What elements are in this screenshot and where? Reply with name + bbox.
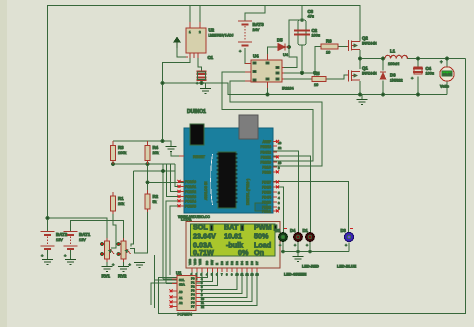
svg-text:D6: D6 <box>390 73 396 78</box>
svg-text:L1: L1 <box>390 49 396 54</box>
svg-text:10: 10 <box>278 161 282 165</box>
svg-text:PC3/A3: PC3/A3 <box>185 195 196 199</box>
wire U1 P7 to LCD D7 <box>200 272 257 306</box>
svg-text:PC0/A0: PC0/A0 <box>185 180 196 184</box>
svg-text:AREF: AREF <box>262 140 271 144</box>
wire Q2 source to switch node <box>359 50 361 59</box>
wire LED cathode bus <box>283 242 349 252</box>
svg-text:R3: R3 <box>118 145 124 150</box>
svg-text:U4: U4 <box>283 53 288 57</box>
svg-text:14: 14 <box>256 273 260 277</box>
svg-text:PD6/6: PD6/6 <box>262 186 271 190</box>
wire ground symbol stem on ground rail <box>361 95 363 100</box>
wire divider top rail <box>113 141 171 146</box>
svg-text:PD4/4: PD4/4 <box>262 196 271 200</box>
wire BAT3 minus to U4 pin1 <box>245 48 251 64</box>
svg-text:13: 13 <box>251 273 255 277</box>
svg-text:IRFZ44N: IRFZ44N <box>362 42 377 46</box>
svg-text:PC5/A5: PC5/A5 <box>185 205 196 209</box>
io expander U1 <box>170 271 205 317</box>
wire BAT1 plus to RV2 top <box>71 221 124 239</box>
svg-text:BAT1: BAT1 <box>79 232 91 237</box>
mosfet Q2 <box>347 36 377 52</box>
svg-text:A2: A2 <box>179 301 183 305</box>
svg-text:100u: 100u <box>426 72 434 76</box>
svg-text:+0.00: +0.00 <box>443 72 452 76</box>
svg-text:0.71W: 0.71W <box>193 248 214 257</box>
resistor R5 <box>312 71 326 87</box>
wire C1 stub from U2 pin <box>198 58 202 83</box>
wire U1 P3 to LCD backlight <box>200 272 237 290</box>
wire R1 bottom to RV1 wiper <box>111 211 116 248</box>
resistor R3 <box>111 141 127 164</box>
arduino board DUINO1 <box>178 109 273 219</box>
voltmeter <box>440 60 454 89</box>
wire tap to A3 <box>167 164 185 197</box>
svg-text:VEE: VEE <box>198 259 202 265</box>
ground below BAT2 <box>42 260 53 265</box>
svg-text:LED-BLUE: LED-BLUE <box>337 265 357 269</box>
svg-text:C3: C3 <box>308 9 314 14</box>
svg-text:E: E <box>215 263 219 265</box>
svg-text:PB2/10: PB2/10 <box>261 161 272 165</box>
wire RV2 bottom to ground <box>123 262 125 266</box>
svg-text:SOL ▮: SOL ▮ <box>193 223 214 232</box>
svg-text:C2: C2 <box>312 28 318 33</box>
wire tap to A2 <box>171 164 185 192</box>
svg-text:U4: U4 <box>253 54 259 59</box>
wire U4 pin3 loop to arduino D9 <box>230 81 322 166</box>
svg-text:50%: 50% <box>254 232 269 241</box>
wire D6 stubs <box>382 59 384 95</box>
svg-text:BAT3: BAT3 <box>253 22 265 27</box>
svg-text:PD7/7: PD7/7 <box>262 181 271 185</box>
svg-text:PB3/11: PB3/11 <box>261 156 271 160</box>
svg-text:D7: D7 <box>255 261 259 265</box>
wire U4 ground pin to ground rail <box>267 82 269 95</box>
svg-text:Volts: Volts <box>440 85 449 89</box>
svg-text:D2: D2 <box>230 261 234 265</box>
battery BAT3 <box>238 21 264 54</box>
svg-text:R5: R5 <box>314 71 320 76</box>
svg-text:Q2: Q2 <box>362 36 368 41</box>
svg-text:LM2576HVT-ADJ: LM2576HVT-ADJ <box>209 34 234 38</box>
wire arduino A4 to U1 SDA <box>166 201 184 284</box>
svg-text:A0: A0 <box>179 290 183 294</box>
wire U2 input drops from top rail <box>190 6 200 23</box>
svg-text:5k: 5k <box>153 200 157 204</box>
svg-text:11: 11 <box>241 273 244 277</box>
wire divider tap line one <box>113 161 175 172</box>
wire R6 to Q2 gate <box>338 46 347 48</box>
svg-text:+: + <box>294 244 296 248</box>
svg-text:PC2/A2: PC2/A2 <box>185 190 196 194</box>
svg-text:DIGITAL (PWM~): DIGITAL (PWM~) <box>246 179 250 205</box>
svg-text:U2: U2 <box>209 28 215 33</box>
svg-text:RS: RS <box>205 261 209 265</box>
svg-text:PB0/8: PB0/8 <box>262 171 271 175</box>
wire voltmeter stubs <box>446 59 448 95</box>
svg-text:C1: C1 <box>208 55 214 60</box>
wire LCD VEE bundle <box>151 272 202 305</box>
wire Q1 source to ground rail <box>359 81 361 95</box>
ground below BAT1 <box>65 260 76 265</box>
wire D5 cathode to C3 top and U4 VB pin <box>282 6 302 68</box>
svg-text:SDA: SDA <box>179 283 185 287</box>
wire divider tap line two <box>134 171 185 187</box>
driver U4 <box>245 54 294 91</box>
svg-text:D0: D0 <box>220 261 224 265</box>
wire LCD VDD bundle <box>155 255 198 308</box>
svg-text:RV1: RV1 <box>102 274 111 279</box>
wire U1 P6 to LCD D6 <box>200 272 252 302</box>
wire U1 P1 to LCD RW <box>200 272 213 282</box>
LED D2 green <box>275 228 287 248</box>
svg-text:C4: C4 <box>426 66 432 71</box>
wire C3 bottom and U4 IN pin to R6 <box>282 45 321 73</box>
arduino left pins <box>178 156 197 209</box>
wire U1 P2 to LCD E <box>200 272 218 286</box>
svg-text:RW: RW <box>210 260 214 265</box>
svg-text:IR2104: IR2104 <box>282 87 294 91</box>
inductor L1 <box>385 49 407 67</box>
svg-text:D1: D1 <box>303 228 309 233</box>
wire arduino reset to ground <box>171 151 184 156</box>
ground below LED bus <box>293 257 304 262</box>
ground below C1 <box>200 89 211 94</box>
svg-text:PD1/1: PD1/1 <box>262 210 271 214</box>
wire BAT3 plus jog to top rail <box>245 6 265 22</box>
wire U4 LO pin to R5 <box>282 78 312 80</box>
svg-text:100k: 100k <box>118 151 126 155</box>
svg-text:D6: D6 <box>250 261 254 265</box>
LED D1 red <box>303 228 315 248</box>
wire U4 top pin to D5 anode <box>268 47 278 54</box>
svg-text:RESET: RESET <box>193 155 206 159</box>
svg-text:PD3/3: PD3/3 <box>262 201 271 205</box>
ground near arduino reset <box>166 147 177 152</box>
svg-text:24V: 24V <box>253 28 260 32</box>
wire BAT2 minus to ground <box>47 249 49 259</box>
svg-text:D3: D3 <box>235 261 239 265</box>
svg-text:10: 10 <box>326 51 330 55</box>
svg-text:D5: D5 <box>245 261 249 265</box>
wire BAT1 minus to ground <box>70 249 72 259</box>
resistor R6 <box>321 39 338 55</box>
svg-text:12: 12 <box>201 305 205 309</box>
wire left rail to BAT2 and RV1 top <box>48 218 108 238</box>
wire LED ground stem <box>297 252 299 257</box>
svg-text:IRFZ44N: IRFZ44N <box>362 72 377 76</box>
svg-text:U1: U1 <box>176 271 182 276</box>
wire RV1 bottom to ground <box>106 262 108 266</box>
wire R5 to Q1 gate <box>326 75 347 79</box>
svg-text:LED-RED: LED-RED <box>302 265 319 269</box>
svg-text:12V: 12V <box>56 238 63 242</box>
diode D6 <box>380 72 403 83</box>
wire R4 to R2 with tap to A0 <box>148 161 185 197</box>
ground right of RV2 <box>134 263 145 268</box>
svg-text:100u: 100u <box>312 34 320 38</box>
svg-text:PB1/9: PB1/9 <box>262 166 271 170</box>
svg-text:+: + <box>440 60 443 65</box>
wire Q1 drain to switch node <box>359 59 361 70</box>
mosfet Q1 <box>347 66 377 82</box>
ground on main ground rail <box>357 100 368 105</box>
wire top rail from left loop to Q2 drain <box>48 6 361 219</box>
svg-text:On: On <box>254 248 264 257</box>
svg-text:10: 10 <box>314 83 318 87</box>
svg-text:100uH: 100uH <box>388 62 399 66</box>
wire U2 output down to divider top rail <box>162 83 164 141</box>
LED labels <box>284 265 357 277</box>
wire C1 ground stem <box>205 83 207 88</box>
LCD display LCD1 <box>181 217 280 277</box>
power arrow left of U2 <box>174 38 180 49</box>
svg-text:R2: R2 <box>153 194 159 199</box>
wire switch node rail with L1 to output <box>360 58 466 60</box>
resistor R4 <box>145 141 159 164</box>
wire U1 P0 to LCD RS <box>200 272 208 278</box>
LED D3 blue <box>341 228 354 248</box>
svg-text:10.61: 10.61 <box>224 232 242 241</box>
wire U2 left pin to power arrow <box>177 48 186 57</box>
svg-text:BAT2: BAT2 <box>56 232 68 237</box>
capacitor C4 <box>411 66 434 81</box>
svg-text:DUINO1: DUINO1 <box>187 109 206 115</box>
svg-text:12: 12 <box>278 146 282 150</box>
svg-text:+: + <box>306 244 308 248</box>
wire U2 ground pin to ground bus and ground rail <box>163 58 448 95</box>
wire arduino D4 to red LED D1 <box>273 156 311 233</box>
svg-text:D4: D4 <box>240 261 244 265</box>
wire R2 bottom to RV2 wiper <box>130 209 148 253</box>
svg-text:SCL: SCL <box>179 278 185 282</box>
ground below RV1 <box>102 267 113 272</box>
svg-text:LED-GREEN: LED-GREEN <box>284 273 307 277</box>
svg-text:PD5/5: PD5/5 <box>262 191 271 195</box>
svg-text:1N5822: 1N5822 <box>390 79 403 83</box>
svg-text:Q1: Q1 <box>362 66 368 71</box>
svg-text:PC1/A1: PC1/A1 <box>185 185 196 189</box>
wire output rail down right side and bottom loop to LCD VSS <box>159 59 466 314</box>
svg-text:ANALOG IN: ANALOG IN <box>204 181 208 200</box>
wire C4 stubs <box>417 59 419 95</box>
svg-text:D3: D3 <box>341 228 347 233</box>
svg-text:A1: A1 <box>179 296 183 300</box>
svg-text:RV2: RV2 <box>118 274 127 279</box>
svg-text:12V: 12V <box>79 238 86 242</box>
wire arduino D2 to green LED <box>273 187 284 233</box>
resistor R2 <box>145 190 159 212</box>
LED D4 red <box>290 228 302 248</box>
wire arduino D3 to red LED D4 <box>273 151 299 233</box>
ground below RV2 <box>118 267 129 272</box>
svg-text:12: 12 <box>246 273 250 277</box>
svg-text:R4: R4 <box>153 145 159 150</box>
svg-text:BAT ▮: BAT ▮ <box>224 223 244 232</box>
svg-text:VDD: VDD <box>193 258 197 265</box>
svg-text:VSS: VSS <box>188 259 192 265</box>
wire U4 pin2 loop to arduino D10 <box>222 72 313 161</box>
svg-text:P7: P7 <box>191 305 195 309</box>
svg-text:R1: R1 <box>118 196 124 201</box>
svg-text:PC4/A4: PC4/A4 <box>185 200 196 204</box>
svg-text:23.64V: 23.64V <box>193 232 216 241</box>
svg-text:PB4/12: PB4/12 <box>261 151 272 155</box>
svg-text:D2: D2 <box>275 228 281 233</box>
battery BAT2 <box>41 232 68 259</box>
svg-text:+: + <box>345 244 347 248</box>
capacitor C1 electrolytic <box>196 55 214 86</box>
potentiometer RV1 <box>101 238 116 279</box>
potentiometer RV2 <box>117 238 132 279</box>
svg-text:D4: D4 <box>290 228 296 233</box>
capacitor C3 electrolytic <box>294 9 320 45</box>
svg-text:20k: 20k <box>153 151 159 155</box>
regulator U2 <box>186 22 234 58</box>
svg-text:0%: 0% <box>238 248 249 257</box>
resistor R1 <box>111 192 125 214</box>
wire arduino A5 bundle <box>170 206 184 275</box>
svg-text:+: + <box>279 244 281 248</box>
svg-text:PCF8574: PCF8574 <box>178 313 192 317</box>
svg-text:47u: 47u <box>308 15 314 19</box>
wire U1 P4 to LCD D4 <box>200 272 242 294</box>
battery BAT1 <box>64 232 91 259</box>
wire arduino D5 to blue LED D3 <box>273 182 349 233</box>
wire U1 P5 to LCD D5 <box>200 272 247 298</box>
svg-text:R6: R6 <box>326 39 332 44</box>
svg-text:10: 10 <box>236 273 240 277</box>
svg-text:D1: D1 <box>225 261 229 265</box>
diode D5 <box>277 38 289 58</box>
svg-text:PB5/13: PB5/13 <box>261 145 272 149</box>
wire tap line two down to RV2 <box>131 171 134 247</box>
arduino right pins <box>261 140 282 214</box>
svg-text:20k: 20k <box>118 202 124 206</box>
svg-text:D5: D5 <box>277 38 283 43</box>
svg-text:LCD1: LCD1 <box>181 217 192 222</box>
wire tap junction down to U1 SCL <box>163 164 177 279</box>
